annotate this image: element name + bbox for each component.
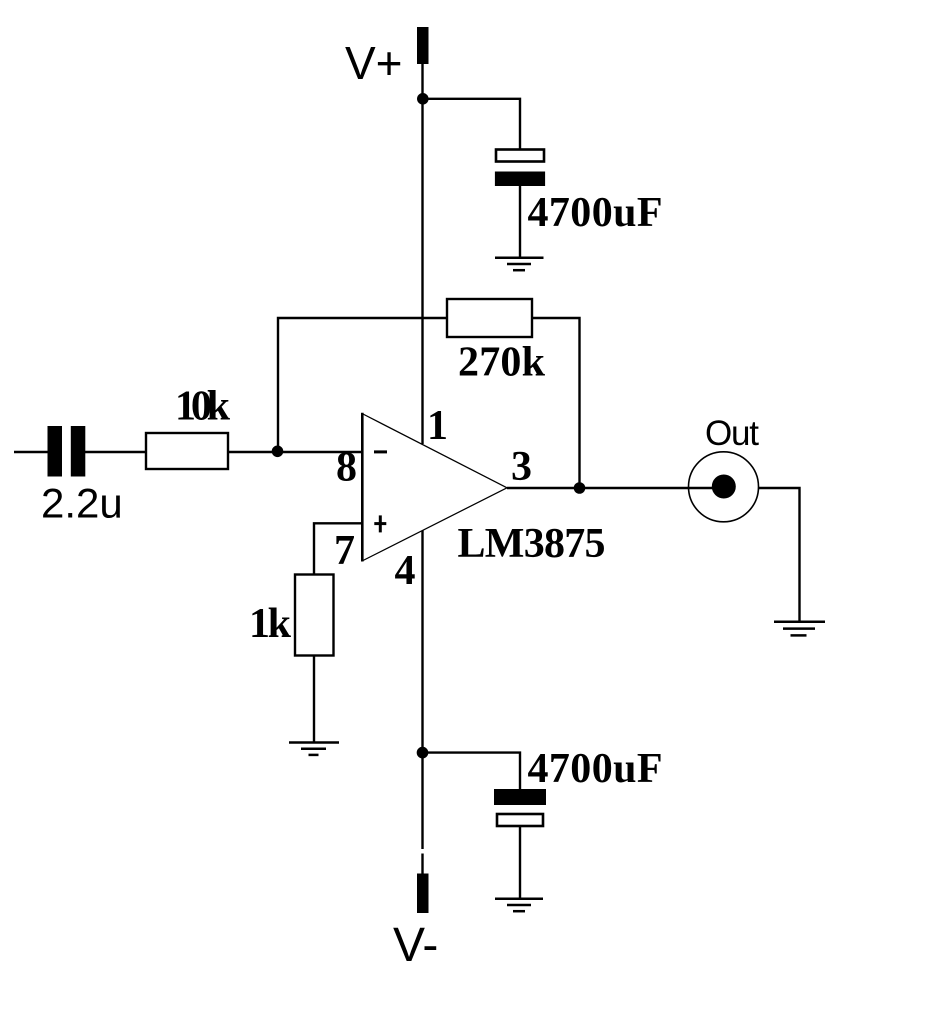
wire pin 7 to R3 xyxy=(314,523,362,575)
wire node to C2 top xyxy=(423,99,520,149)
svg-text:8: 8 xyxy=(336,445,357,491)
svg-text:1k: 1k xyxy=(249,601,292,647)
ground below C3 xyxy=(495,899,543,911)
wire C2 to ground xyxy=(519,186,521,257)
wire C1 to R1 xyxy=(85,451,146,453)
plus sign at non-inverting input xyxy=(374,515,386,532)
capacitor C2 4700uF negative plate xyxy=(495,172,545,187)
wire node to C3 xyxy=(423,753,521,790)
resistor R1 10k body xyxy=(146,433,228,469)
wire R1 to op-amp inverting input pin 8 xyxy=(228,451,362,453)
svg-text:270k: 270k xyxy=(458,340,546,386)
V- supply terminal xyxy=(417,874,429,914)
output wire pin 3 to Out connector xyxy=(507,487,723,489)
resistor R2 270k body xyxy=(447,299,532,337)
svg-text:10k: 10k xyxy=(175,384,231,430)
node junction at V- rail xyxy=(417,747,429,759)
node junction at output xyxy=(574,482,586,494)
svg-text:1: 1 xyxy=(427,403,448,449)
capacitor C1 2.2u right plate xyxy=(71,426,86,477)
svg-text:LM3875: LM3875 xyxy=(458,521,606,567)
Out connector ring xyxy=(689,452,759,522)
input wire xyxy=(14,451,48,453)
svg-text:4700uF: 4700uF xyxy=(528,190,663,236)
capacitor C1 2.2u left plate xyxy=(48,426,63,477)
svg-text:4: 4 xyxy=(395,548,416,594)
wire op-amp pin 4 down to V- node xyxy=(421,531,423,754)
ground below C2 xyxy=(495,258,544,270)
Out connector center pin xyxy=(712,475,736,499)
wire R2 right side down to output node xyxy=(532,318,580,488)
node junction at inverting input xyxy=(272,446,284,458)
wire R3 to ground xyxy=(313,656,315,743)
minus sign at inverting input xyxy=(374,450,387,453)
op-amp U1 LM3875 triangle xyxy=(362,413,507,562)
svg-text:3: 3 xyxy=(511,444,532,490)
capacitor C2 4700uF positive plate xyxy=(496,150,544,162)
svg-text:4700uF: 4700uF xyxy=(528,746,663,792)
svg-text:Out: Out xyxy=(705,414,759,453)
short wire segment above V- terminal xyxy=(421,854,423,875)
wire V+ terminal down to op-amp pin 1 xyxy=(421,63,423,444)
ground below Out xyxy=(774,622,825,636)
svg-text:2.2u: 2.2u xyxy=(41,480,123,527)
feedback wire from inverting node up and across xyxy=(278,318,447,451)
ground below R3 xyxy=(289,743,339,755)
capacitor C3 4700uF positive plate xyxy=(497,814,543,826)
node junction at V+ rail xyxy=(417,93,429,105)
svg-text:V-: V- xyxy=(393,919,438,972)
wire C3 to ground xyxy=(519,826,521,899)
capacitor C3 4700uF negative plate xyxy=(494,789,546,805)
wire V- node down to V- terminal xyxy=(421,753,423,849)
V+ supply terminal xyxy=(417,27,429,64)
wire Out connector to ground xyxy=(759,488,800,622)
svg-text:7: 7 xyxy=(334,528,355,574)
svg-text:V+: V+ xyxy=(345,37,403,89)
resistor R3 1k body xyxy=(295,575,334,656)
